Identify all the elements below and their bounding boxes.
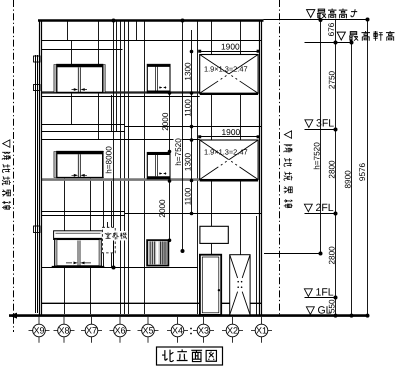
svg-text:2800: 2800 bbox=[327, 246, 336, 265]
svg-text:1.9×1.3=2.47: 1.9×1.3=2.47 bbox=[204, 148, 248, 157]
svg-text:h=8000: h=8000 bbox=[105, 146, 114, 174]
svg-text:X7: X7 bbox=[86, 326, 97, 336]
svg-text:8900: 8900 bbox=[344, 170, 353, 189]
svg-text:X8: X8 bbox=[58, 326, 69, 336]
svg-text:1900: 1900 bbox=[221, 41, 240, 51]
svg-text:h=7520: h=7520 bbox=[174, 138, 183, 166]
svg-text:3FL: 3FL bbox=[316, 118, 334, 130]
svg-text:9576: 9576 bbox=[358, 162, 367, 181]
svg-text:X3: X3 bbox=[198, 326, 209, 336]
svg-text:h=7520: h=7520 bbox=[313, 142, 322, 170]
svg-text:676: 676 bbox=[327, 22, 336, 36]
svg-text:1900: 1900 bbox=[222, 127, 241, 137]
svg-text:X5: X5 bbox=[142, 326, 153, 336]
svg-text:2000: 2000 bbox=[161, 112, 170, 131]
svg-text:1.9×1.3=2.47: 1.9×1.3=2.47 bbox=[204, 65, 248, 74]
svg-text:X2: X2 bbox=[227, 326, 238, 336]
svg-text:1300: 1300 bbox=[183, 62, 192, 81]
svg-text:550: 550 bbox=[327, 299, 336, 313]
svg-text:X1: X1 bbox=[256, 326, 267, 336]
svg-text:1100: 1100 bbox=[183, 187, 192, 205]
svg-text:2FL: 2FL bbox=[316, 202, 334, 214]
svg-text:1FL: 1FL bbox=[316, 287, 334, 299]
svg-text:2750: 2750 bbox=[328, 70, 337, 89]
svg-text:X6: X6 bbox=[114, 326, 125, 336]
svg-text:2000: 2000 bbox=[158, 199, 167, 218]
svg-text:1300: 1300 bbox=[183, 152, 192, 171]
svg-text:X9: X9 bbox=[33, 326, 44, 336]
svg-text:2800: 2800 bbox=[327, 160, 336, 179]
svg-text:1100: 1100 bbox=[183, 99, 192, 117]
svg-text:X4: X4 bbox=[172, 326, 183, 336]
